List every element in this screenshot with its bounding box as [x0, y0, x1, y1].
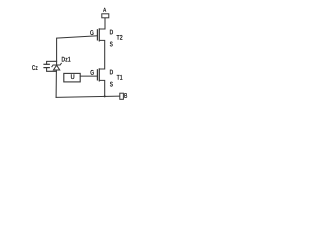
wire capacitor bottom connector: [47, 68, 57, 72]
label Cz: [32, 65, 38, 70]
transistor T2 gate bar: [96, 30, 98, 40]
wire U box output to T1 gate: [80, 75, 97, 77]
wire capacitor top connector: [47, 61, 57, 64]
label S of T1: [110, 82, 113, 87]
label T2: [116, 35, 122, 40]
label D of T1: [110, 70, 113, 75]
label A: [103, 8, 106, 12]
wire A to T2 drain: [99, 18, 105, 29]
wire zener node up to T2 gate: [57, 36, 98, 65]
label G of T2: [90, 30, 93, 35]
capacitor Cz bottom plate: [44, 67, 49, 69]
capacitor Cz top plate: [44, 63, 49, 65]
terminal A pad: [102, 14, 109, 18]
zener diode Dz1 triangle: [54, 65, 60, 70]
wire zener anode down to bottom rail: [55, 70, 57, 97]
junction dot bottom rail: [104, 95, 106, 97]
label U: [71, 74, 75, 79]
label Dz1: [62, 57, 71, 62]
transistor T1 channel bar: [98, 69, 100, 81]
wire T2 source to T1 drain: [99, 40, 104, 69]
label S of T2: [110, 42, 113, 47]
label D of T2: [110, 30, 113, 35]
transistor T2 channel bar: [98, 29, 100, 41]
label B: [124, 93, 127, 98]
zener diode Dz1 cathode bar with wings: [52, 63, 61, 66]
box U: [64, 73, 80, 82]
terminal B pad: [120, 93, 124, 99]
transistor T1 gate bar: [96, 70, 98, 80]
label T1: [117, 75, 123, 80]
wire bottom rail to terminal B: [56, 96, 120, 97]
label G of T1: [90, 70, 93, 75]
wire T1 source down: [99, 80, 104, 96]
